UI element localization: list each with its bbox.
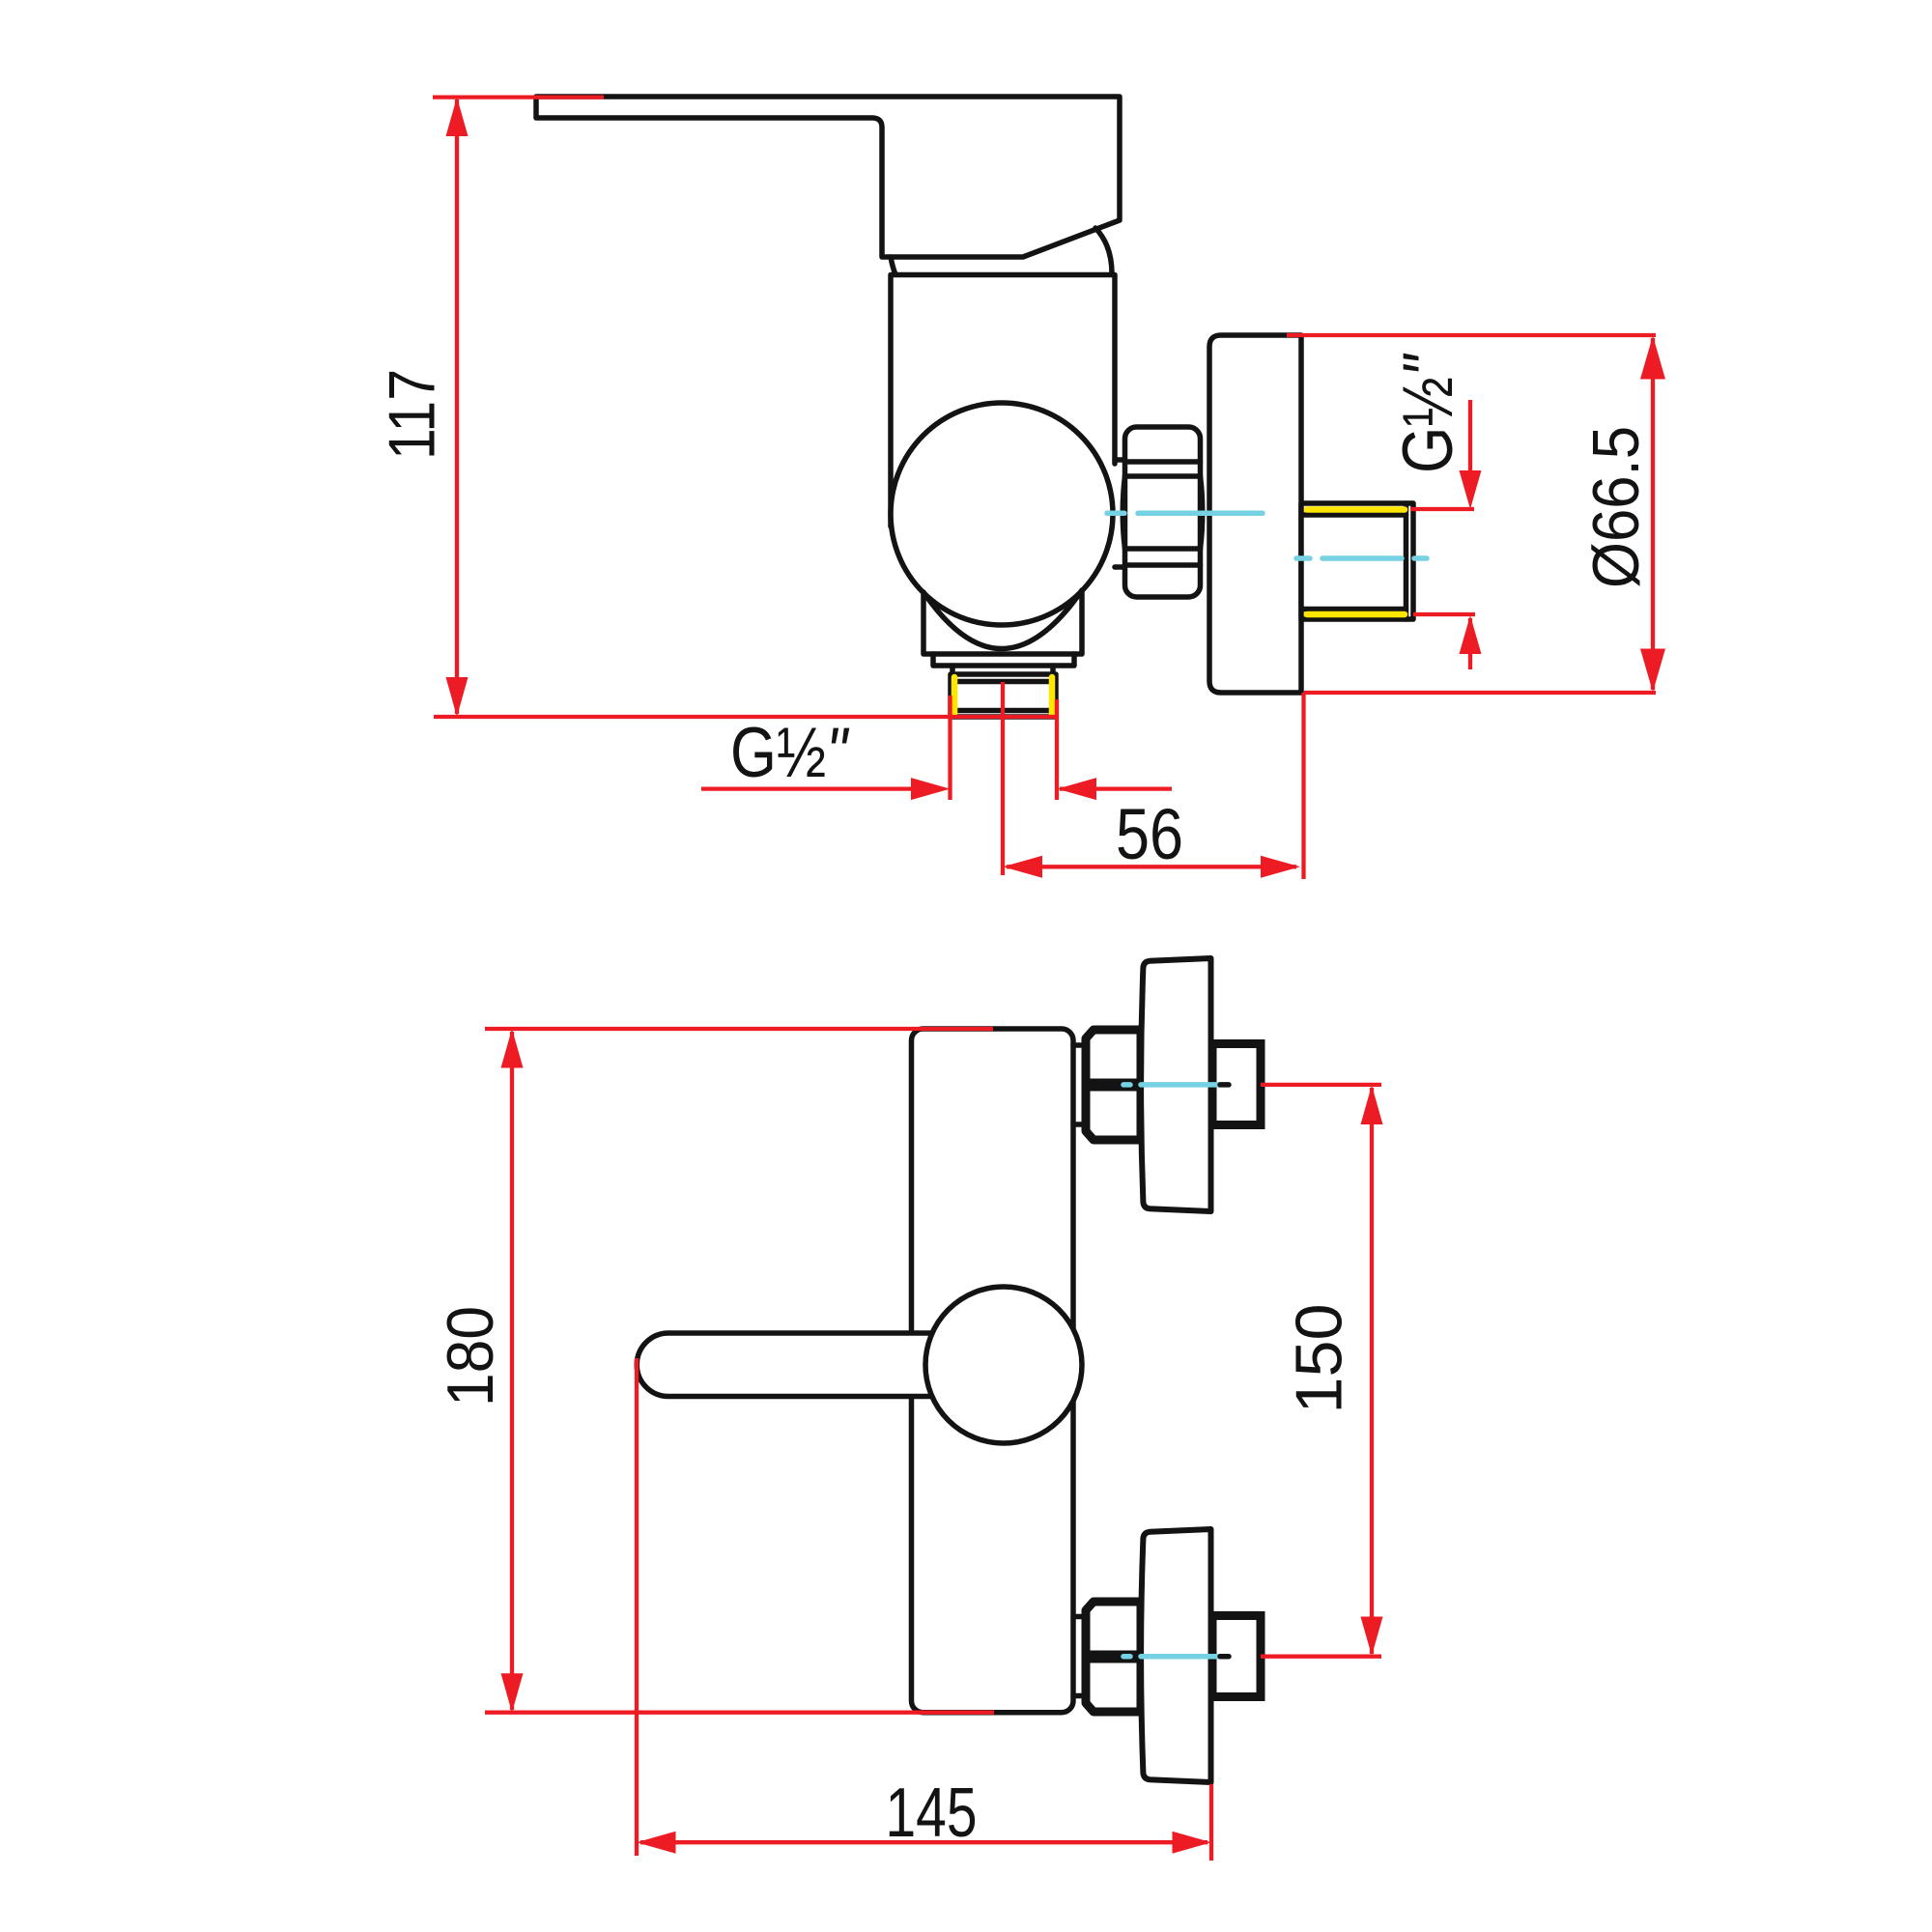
svg-text:G½": G½" xyxy=(1389,353,1467,473)
svg-text:Ø66.5: Ø66.5 xyxy=(1579,426,1653,588)
svg-text:150: 150 xyxy=(1283,1304,1356,1414)
svg-text:56: 56 xyxy=(1116,794,1183,874)
svg-text:180: 180 xyxy=(434,1306,507,1406)
svg-text:117: 117 xyxy=(376,369,449,460)
svg-text:G½": G½" xyxy=(730,714,850,792)
svg-text:145: 145 xyxy=(886,1775,978,1852)
